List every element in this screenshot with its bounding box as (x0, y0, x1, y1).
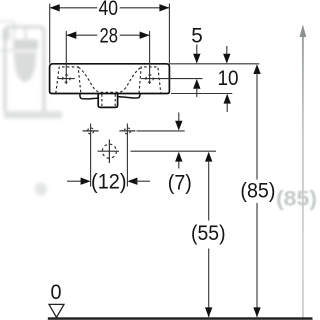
dashed right pocket (139, 67, 161, 93)
dashed bowl contour (78, 67, 140, 92)
dimension 5 (191, 25, 203, 97)
dimension 28 arrowheads (66, 32, 76, 39)
fixing hole right cross + leader to 5 dim (141, 75, 202, 82)
dashed drain pipe lines in box (102, 94, 115, 106)
apron ledge right (118, 94, 141, 98)
svg-text:(85): (85) (276, 187, 317, 211)
svg-text:(85): (85) (240, 180, 275, 203)
svg-text:(7): (7) (168, 172, 192, 195)
svg-text:40: 40 (98, 0, 118, 20)
dimension (85) vertical (240, 64, 275, 317)
svg-text:28: 28 (99, 24, 118, 47)
extension lines for (12) (91, 124, 128, 187)
supply connection cross left (83, 128, 99, 134)
dimension 40 arrowheads (50, 4, 60, 11)
dimension 28 line (66, 34, 149, 36)
datum triangle (49, 304, 64, 317)
svg-text:(55): (55) (191, 222, 226, 245)
dimension 28 extension lines (66, 31, 149, 84)
leader basin bottom edge right (171, 93, 232, 95)
svg-text:10: 10 (218, 67, 239, 90)
apron ledge left (80, 94, 98, 99)
leader basin top edge right (170, 63, 260, 65)
watermark top-left faint product image (0, 22, 62, 119)
supply connection cross right (119, 128, 135, 134)
supply leader line (137, 130, 185, 132)
dimension 10 (218, 46, 239, 112)
drain outlet dashed circle (98, 140, 120, 164)
drain leader line (131, 150, 217, 152)
dashed left pocket (56, 67, 81, 93)
watermark small blob left (35, 183, 47, 196)
watermark right vertical line with arrow (300, 25, 307, 320)
svg-text:0: 0 (51, 281, 62, 304)
dimension 40 line (50, 7, 170, 9)
fixing hole left cross (58, 75, 75, 82)
dimension (55) vertical (191, 152, 226, 317)
dimension (12) arrows (67, 180, 83, 182)
dimension (7) arrows (168, 113, 192, 195)
svg-text:(12): (12) (91, 170, 127, 193)
drain trap box (98, 94, 117, 108)
basin outline (50, 64, 170, 94)
floor line (48, 317, 313, 320)
dimension 40 extension lines (50, 4, 170, 64)
svg-text:5: 5 (191, 25, 203, 48)
